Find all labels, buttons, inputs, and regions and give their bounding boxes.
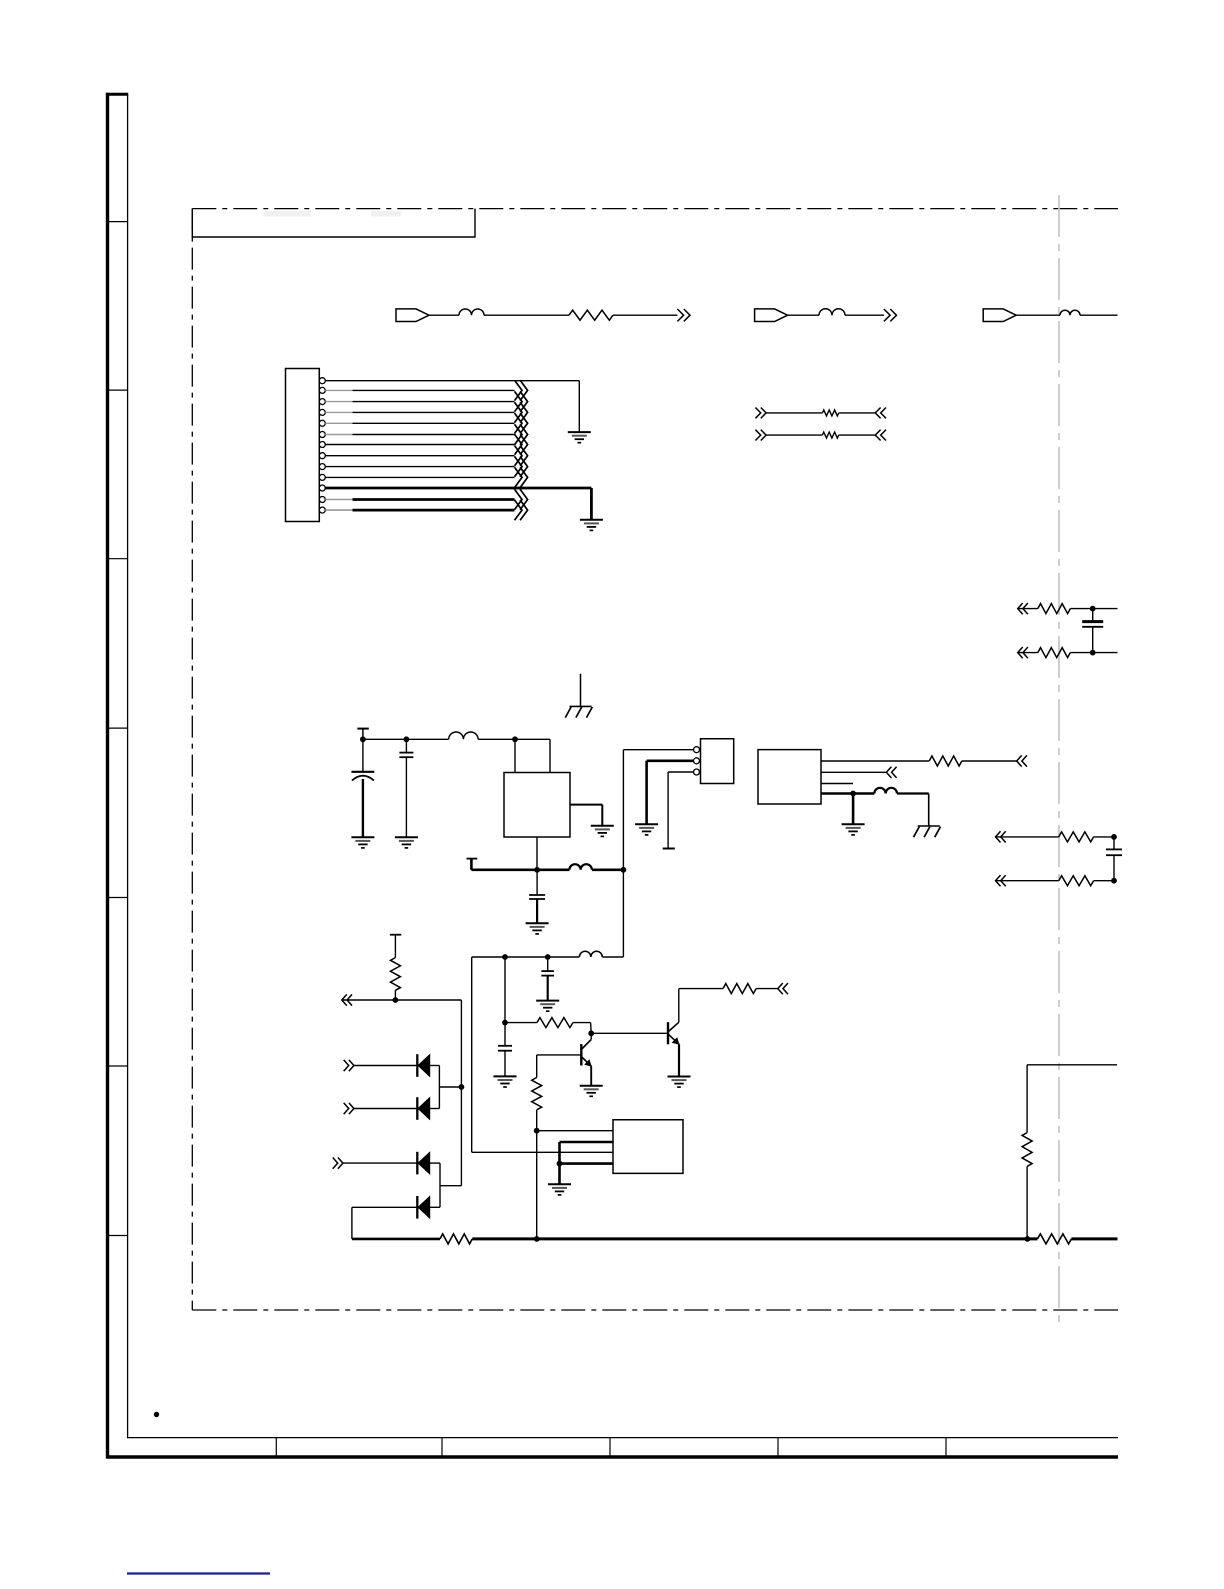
power bus (thick)	[471, 868, 569, 871]
wire	[460, 1000, 462, 1186]
wire	[613, 314, 677, 316]
U3 ground lead (thick)	[558, 1164, 561, 1185]
wire	[478, 738, 515, 740]
wire	[363, 738, 407, 740]
CN2 pin 3 stub	[668, 771, 693, 773]
power bus left stub	[467, 858, 478, 860]
CN1 pin 7 circle	[319, 442, 325, 448]
U1 ground lead	[536, 837, 538, 870]
IC U2 (reset / detector)	[758, 750, 821, 804]
supply rail stub	[357, 728, 368, 730]
wire	[471, 957, 473, 1152]
base resistor R10	[537, 1018, 573, 1028]
U2 ground pin (thick)	[821, 792, 853, 795]
wire	[1018, 652, 1038, 654]
wire	[430, 1206, 440, 1208]
off-page arrow (RC pair 2 upper)	[1001, 831, 1006, 842]
CN2 pin 3 circle	[694, 769, 700, 775]
D4 anode wire to bus	[352, 1206, 417, 1208]
wire to Q2 base	[591, 1032, 667, 1034]
resistor R2	[822, 410, 838, 416]
junction	[850, 791, 856, 797]
bottom bus (thick)	[1071, 1237, 1117, 1240]
wire	[342, 999, 462, 1001]
CN1 pin 11 circle	[319, 485, 325, 491]
junction	[502, 1020, 508, 1026]
CN2 pin 1 circle	[694, 747, 700, 753]
wire	[1080, 314, 1118, 316]
CN1 pin 5 circle	[319, 420, 325, 426]
CN1 pin 9 wire	[325, 466, 514, 468]
ferrite bead L3	[1060, 310, 1080, 315]
chassis ground (U2 filter)	[918, 825, 940, 827]
ground (U3)	[548, 1183, 571, 1185]
off-page arrow	[881, 430, 886, 441]
diode pair 1 tie bracket	[438, 1066, 440, 1109]
resistor R13	[440, 1234, 472, 1244]
ground (C5)	[536, 1000, 559, 1002]
wire	[602, 956, 623, 958]
wire	[1027, 1064, 1117, 1066]
wire	[839, 412, 876, 414]
resistor R11 (Q1 base)	[532, 1078, 542, 1110]
off-page arrow (pin 12)	[515, 489, 523, 509]
off-page arrow (pin 7)	[515, 434, 523, 454]
junction	[588, 1030, 594, 1036]
CN1 pin 13 circle	[319, 507, 325, 513]
chassis ground	[570, 705, 592, 707]
wire	[962, 760, 1017, 762]
inductor L7	[579, 951, 602, 957]
resistor R8	[1059, 876, 1094, 886]
junction	[512, 736, 518, 742]
resistor R6	[929, 756, 962, 766]
diode pair 2 tie bracket	[439, 1163, 441, 1207]
U3 pin 1 wire	[537, 1130, 613, 1132]
wire stub	[580, 674, 582, 707]
wire (thick)	[897, 792, 929, 794]
wire	[788, 314, 819, 316]
junction	[534, 1236, 540, 1242]
connector tag T3	[983, 309, 1016, 322]
capacitor C5	[547, 957, 549, 971]
wire	[1026, 1065, 1028, 1133]
CN1 pin 7 wire	[325, 444, 514, 446]
wire	[845, 314, 884, 316]
wire	[1094, 880, 1114, 882]
CN1 pin 8 circle	[319, 453, 325, 459]
wire	[484, 314, 569, 316]
wire	[996, 836, 1059, 838]
CN1 pin 6 circle	[319, 432, 325, 438]
resistor R5	[1038, 648, 1071, 658]
U2 output 1 wire	[821, 760, 929, 762]
CN1 pin 4 wire	[325, 411, 352, 413]
IC U1 (regulator)	[504, 773, 570, 838]
resistor R7	[1059, 832, 1094, 842]
CN1 pin 10 circle	[319, 474, 325, 480]
wire	[430, 1108, 440, 1110]
diode D1	[416, 1054, 418, 1077]
off-page arrow	[677, 309, 683, 321]
junction	[404, 736, 410, 742]
capacitor C1 (electrolytic)	[362, 739, 364, 772]
CN1 pin 9 circle	[319, 464, 325, 470]
resistor R12	[723, 984, 756, 994]
ground (C4)	[494, 1075, 517, 1077]
pull-up resistor R9 stub	[390, 934, 401, 936]
CN1 pin 5 wire	[325, 422, 352, 424]
off-page arrow (pin 5)	[515, 413, 523, 433]
off-page arrow (pin 3)	[515, 391, 523, 411]
wire	[472, 956, 580, 958]
wire	[536, 1131, 538, 1239]
off-page arrow (RC pair 2 lower)	[1001, 875, 1006, 886]
CN1 pin 11 wire (thick) to ground	[325, 487, 591, 490]
junction	[502, 954, 508, 960]
wire	[1018, 608, 1038, 610]
off-page arrow (RC pair 1 upper)	[1023, 603, 1028, 614]
wire (thick)	[853, 792, 874, 795]
off-page arrow (pin 4)	[515, 402, 523, 422]
off-page arrow	[881, 408, 886, 419]
ground (C2)	[395, 836, 418, 838]
diode D3	[416, 1152, 418, 1175]
wire	[429, 314, 459, 316]
connector tag T1	[396, 309, 429, 322]
capacitor C3	[536, 870, 538, 895]
connector CN1 body	[286, 369, 320, 522]
off-page arrow (pin 9)	[515, 456, 523, 476]
ground (CN2 pin 2)	[635, 823, 658, 825]
CN1 pin 10 wire	[325, 476, 514, 478]
CN1 pin 8 wire	[325, 455, 514, 457]
off-page arrow (row B)	[755, 430, 760, 441]
transistor Q2 (NPN)	[667, 1022, 669, 1044]
ground (Q1)	[580, 1085, 603, 1087]
resistor R4	[1038, 604, 1071, 614]
junction	[393, 997, 399, 1003]
wire	[1026, 1166, 1028, 1239]
off-page arrow (D3)	[333, 1158, 338, 1169]
wire	[515, 738, 550, 740]
off-page arrow (RC pair 1 lower)	[1023, 647, 1028, 658]
ferrite bead L2	[819, 309, 845, 316]
vertical feed wire	[622, 750, 624, 870]
Q1 base lead	[537, 1054, 582, 1056]
CN1 pin 12 circle	[319, 497, 325, 503]
diode D2	[416, 1097, 418, 1120]
junction	[534, 867, 540, 873]
ground (C1)	[351, 836, 374, 838]
wire	[839, 434, 876, 436]
junction	[1111, 834, 1117, 840]
CN1 pin 13 wire (thick)	[325, 509, 352, 511]
ground (Q2)	[668, 1076, 691, 1078]
capacitor C11	[1113, 837, 1115, 850]
off-page arrow (pin 13)	[515, 500, 523, 520]
wire	[766, 412, 822, 414]
CN1 pin 6 wire	[325, 434, 352, 436]
off-page arrow (row A)	[755, 408, 760, 419]
ground (CN1 pin 1)	[568, 431, 591, 433]
off-page arrow	[1022, 755, 1027, 766]
U3 pin 4 wire (thick)	[560, 1162, 614, 1165]
wire	[1070, 608, 1117, 610]
ground (U1)	[591, 825, 614, 827]
inductor L5 (thick)	[569, 864, 592, 870]
junction	[1025, 1236, 1031, 1242]
wire	[343, 1162, 417, 1164]
connector CN2 body	[701, 739, 734, 784]
IC U3	[613, 1120, 683, 1174]
CN1 pin 12 wire (thick)	[325, 499, 352, 501]
junction	[459, 1084, 465, 1090]
wire	[1094, 836, 1114, 838]
capacitor C4	[504, 1023, 506, 1046]
off-page arrow	[347, 994, 352, 1005]
CN2 pin 2 wire (thick) to ground	[647, 759, 694, 762]
off-page arrow	[884, 309, 890, 321]
off-page arrow (pin 10)	[515, 467, 523, 487]
capacitor C10	[1092, 609, 1094, 621]
wire	[1016, 314, 1060, 316]
junction	[1111, 878, 1117, 884]
inductor L6 (thick)	[874, 788, 897, 794]
wire	[406, 738, 448, 740]
CN1 pin 4 circle	[319, 409, 325, 415]
wire	[354, 1108, 417, 1110]
ground (C3)	[526, 922, 549, 924]
U2 output 2 wire	[821, 771, 886, 773]
inductor L4	[449, 732, 478, 739]
junction	[1090, 650, 1096, 656]
connector tag T2	[755, 309, 788, 322]
wire	[756, 988, 778, 990]
CN1 pin 1 wire to ground	[325, 380, 579, 382]
wire (feed to U3 pin 3)	[472, 1151, 613, 1153]
CN1 pin 2 wire	[325, 389, 352, 391]
wire	[354, 1065, 417, 1067]
wire to CN2 pin 1	[623, 749, 693, 751]
ground (U2)	[842, 823, 865, 825]
wire	[505, 1022, 537, 1024]
capacitor C2	[405, 739, 407, 752]
resistor R15	[1022, 1133, 1032, 1167]
junction	[545, 954, 551, 960]
off-page arrow (D1)	[344, 1060, 349, 1071]
CN1 pin 2 circle	[319, 387, 325, 393]
wire	[430, 1065, 440, 1067]
U1 output stub to ground	[570, 804, 602, 806]
Q2 collector wire	[679, 988, 723, 990]
junction	[621, 867, 627, 873]
CN1 pin 3 circle	[319, 399, 325, 405]
CN2 pin 2 circle	[694, 758, 700, 764]
diode D4	[416, 1196, 418, 1219]
off-page arrow	[783, 983, 788, 994]
junction	[1090, 606, 1096, 612]
off-page arrow (pin 6)	[515, 424, 523, 444]
resistor R1	[569, 310, 613, 320]
bottom bus (thick)	[472, 1237, 1037, 1240]
wire	[766, 434, 822, 436]
wire	[430, 1162, 440, 1164]
junction	[534, 1128, 540, 1134]
ferrite bead L1	[459, 309, 484, 315]
off-page arrow	[892, 767, 897, 778]
transistor Q1 (NPN)	[580, 1044, 582, 1065]
resistor R3	[822, 432, 838, 438]
CN1 pin 1 circle	[319, 378, 325, 384]
wire	[1070, 652, 1117, 654]
ground (CN1 pin 11)	[580, 519, 603, 521]
wire	[996, 880, 1059, 882]
U2 output 3 stub	[821, 783, 853, 785]
junction	[360, 736, 366, 742]
wire	[504, 957, 506, 1023]
wire (thick)	[592, 868, 624, 871]
resistor R14	[1038, 1234, 1072, 1244]
off-page arrow (D2)	[344, 1103, 349, 1114]
junction	[557, 1161, 563, 1167]
U3 pin 2 wire (thick)	[560, 1141, 614, 1144]
CN1 pin 3 wire	[325, 401, 352, 403]
off-page arrow (pin 2)	[515, 380, 523, 400]
bottom bus (thick)	[352, 1238, 440, 1241]
wire	[622, 870, 624, 957]
off-page arrow (pin 8)	[515, 446, 523, 466]
